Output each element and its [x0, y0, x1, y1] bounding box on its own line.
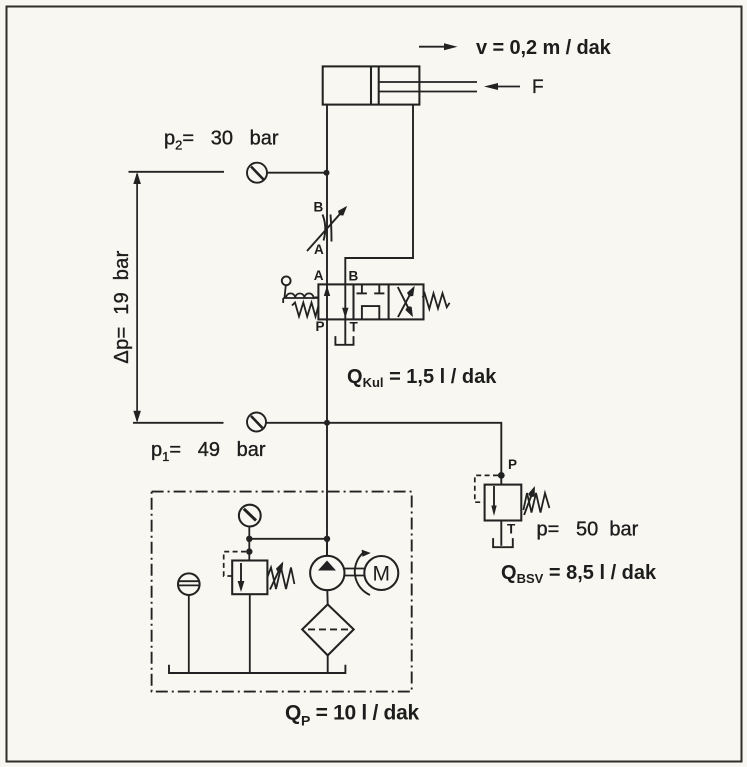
node P (BSV) junction [498, 472, 505, 479]
pump-motor shaft [345, 569, 365, 576]
wire: node P to BSV body [500, 475, 502, 484]
RV1 spring [267, 568, 294, 590]
svg-text:T: T [507, 522, 516, 537]
BSV drain wire [500, 521, 502, 546]
svg-text:B: B [349, 269, 359, 284]
cylinder C1 rod [379, 82, 477, 92]
DV1 position 1: B to T arrow [342, 284, 348, 319]
svg-text:M: M [373, 563, 391, 586]
wire: node N5 to relief valve RV1 [248, 552, 250, 561]
RV1 drain wire [249, 594, 251, 673]
DV1 spring right [423, 293, 450, 309]
motor rotation arrow [355, 550, 371, 595]
relief valve BSV body [485, 485, 522, 521]
gauge G1 line left [133, 422, 224, 424]
wire: pump to filter [326, 590, 328, 604]
level indicator LI [178, 573, 200, 595]
wire: gauge G3 stem [248, 527, 250, 539]
wire: gauge G1 to node N2 [266, 422, 326, 424]
velocity arrow v [419, 43, 458, 50]
DV1 roller actuator circle [282, 276, 291, 285]
svg-text:v = 0,2 m / dak: v = 0,2 m / dak [476, 37, 612, 59]
BSV adjust arrow [524, 488, 534, 515]
gauge G1 (p1) [247, 413, 266, 432]
BSV spring [523, 493, 549, 513]
wire: node N4 to node N5 [248, 539, 250, 552]
DV1 tank symbol [335, 336, 353, 345]
wire: cylinder cap port to node N1 [326, 105, 328, 173]
gauge G2 (p2) [247, 163, 267, 183]
wire: valve port P to node N2 [326, 319, 328, 422]
DV1 tank drain wire [344, 319, 346, 344]
pump P1 [310, 556, 344, 590]
wire: node N2 to pump node N3 [326, 423, 328, 556]
BSV tank symbol [493, 538, 513, 547]
DV1 position 1: P to A arrow [324, 284, 330, 319]
filter F1 [302, 604, 354, 655]
DV1 position 2: blocked port A stub [357, 284, 367, 293]
DV1 spring left [292, 303, 318, 317]
gauge G3 (pump) [239, 505, 261, 527]
DV1 actuator coil scallops [286, 293, 318, 298]
node N5 junction (pilot) [246, 548, 252, 554]
RV1 pilot dashed line [224, 552, 246, 576]
svg-text:p= 50 bar: p= 50 bar [537, 519, 639, 541]
svg-text:B: B [314, 200, 324, 215]
directional valve DV1 body [318, 284, 423, 319]
wire: node N4 to node N3 [249, 538, 327, 540]
svg-text:A: A [314, 268, 324, 283]
relief valve RV1 body [232, 561, 267, 595]
RV1 internal arrow [238, 563, 245, 592]
DV1 position 2: blocked port B stub [374, 284, 384, 293]
wire: gauge G2 to node N1 [267, 172, 326, 174]
wire: cylinder rod port elbow to valve port B [345, 105, 413, 285]
dimension line delta-p [136, 174, 138, 421]
wire: node N3 to pump inlet [326, 539, 328, 556]
tank line [169, 665, 345, 673]
node N3 junction (pump outlet) [324, 536, 330, 542]
electric motor M1 [364, 556, 398, 590]
cylinder C1 body [323, 66, 420, 104]
wire: node N1 through throttle to valve port A [326, 173, 328, 285]
svg-text:A: A [314, 242, 324, 257]
node N4 junction [246, 536, 252, 542]
node N2 junction [324, 420, 330, 426]
wire: filter to tank [327, 655, 329, 673]
svg-text:P: P [508, 457, 517, 472]
cylinder C1 piston [371, 66, 379, 104]
svg-text:F: F [532, 77, 544, 98]
node N1 junction [324, 170, 330, 176]
force arrow F [484, 83, 520, 90]
svg-text:T: T [350, 320, 359, 335]
BSV internal arrow [491, 486, 496, 516]
gauge G2 line left [129, 171, 225, 173]
DV1 position 2: P-T bypass [362, 306, 379, 319]
LI stem wire [188, 595, 190, 673]
DV1 position 3: P to B arrow [398, 288, 414, 317]
power unit enclosure (dash-dot) [152, 492, 412, 692]
RV1 adjust arrow [270, 564, 282, 590]
svg-text:Δp= 19 bar: Δp= 19 bar [111, 250, 133, 363]
svg-text:P: P [316, 319, 325, 334]
wire: node N2 to relief valve BSV [327, 423, 501, 476]
flow control valve FC1 arcs [323, 215, 332, 242]
BSV pilot dashed line [475, 475, 498, 502]
DV1 position 3: A to T arrow [398, 287, 412, 315]
DV1 actuator stem and bar [283, 285, 318, 303]
flow control valve FC1 adjust arrow [307, 208, 346, 251]
